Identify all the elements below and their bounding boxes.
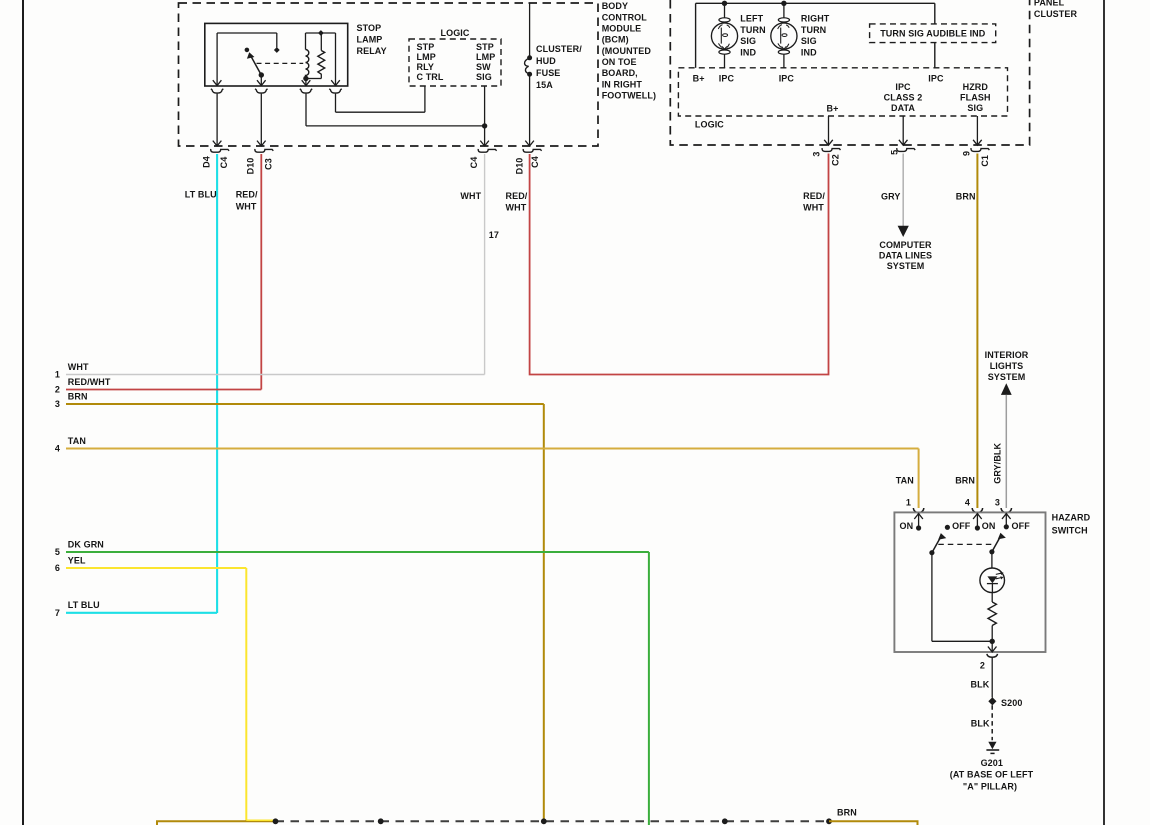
label GRY/BLK [993,442,1003,483]
label RED/WHT [236,190,258,212]
svg-text:LEFT: LEFT [740,14,763,24]
svg-text:4: 4 [965,498,970,508]
label LT BLU [185,190,217,200]
wire GRY from IPC pin 5 [902,154,904,227]
label OFF (switch 2) [1012,521,1031,531]
IPC B+ feed wire [696,3,935,68]
pin label C4 [530,156,540,168]
label ON (switch 1) [899,521,913,531]
pin label 3 [812,151,822,156]
svg-text:C1: C1 [980,155,990,167]
hazard pin4 entry [973,514,982,531]
svg-text:IPC: IPC [928,74,944,84]
left turn sig ind label [740,14,765,58]
svg-text:3: 3 [55,399,60,409]
hazard pin label 2 [980,661,985,671]
wire BLK S200 to G201 [991,705,993,740]
svg-text:TURN: TURN [801,25,826,35]
svg-text:WHT: WHT [236,201,257,211]
svg-text:C2: C2 [831,154,841,166]
BCM pin D10/C3 [255,141,273,153]
wire to turn sig audible ind [934,3,936,24]
label GRY [881,191,900,201]
svg-text:SYSTEM: SYSTEM [988,372,1026,382]
wire logic B+ to pin 3 [828,116,830,145]
hazard pin label 1 [906,498,911,508]
svg-text:SIG: SIG [967,103,983,113]
hazard pin label 4 [965,498,970,508]
stop lamp relay label [357,23,387,56]
svg-text:(AT BASE OF LEFT: (AT BASE OF LEFT [950,769,1034,779]
svg-text:IPC: IPC [719,74,735,84]
left turn signal indicator lamp [711,6,737,68]
logic input label B+ [693,74,705,84]
junction dot B [378,818,384,824]
arrow to interior lights system [1001,383,1012,395]
svg-text:RED/WHT: RED/WHT [68,377,111,387]
svg-text:RELAY: RELAY [357,46,387,56]
svg-text:TAN: TAN [68,436,86,446]
svg-text:3: 3 [995,498,1000,508]
hazard switch 1 arm [929,534,945,556]
wire relay pin4 to rly ctrl [336,86,425,112]
svg-text:COMPUTER: COMPUTER [879,240,932,250]
BCM pin C4 (stop lamp sw sig) [478,141,496,153]
svg-text:SW: SW [476,62,491,72]
junction dot E [826,818,832,824]
panel cluster label [1034,0,1078,19]
label TAN at hazard pin 1 [896,475,914,485]
hazard pin label 3 [995,498,1000,508]
wire RED/WHT from BCM D10/C3 [260,154,262,390]
hazard switch 2 arm [989,533,1005,554]
wire 6 YEL [55,555,246,573]
wire YEL overlap to junction [246,819,273,821]
svg-text:HAZARD: HAZARD [1052,513,1091,523]
pin label C3 [264,158,274,170]
svg-text:C3: C3 [264,158,274,170]
svg-text:LOGIC: LOGIC [441,28,470,38]
logic output label IPC CLASS 2 DATA [884,82,923,113]
svg-text:B+: B+ [693,74,705,84]
svg-text:1: 1 [906,498,911,508]
svg-text:BRN: BRN [837,808,857,818]
svg-text:BLK: BLK [971,680,990,690]
svg-text:TURN: TURN [740,25,765,35]
IPC logic dashed box [678,68,1007,116]
relay pin 4 [329,80,341,93]
wire logic class2 to pin 5 [902,116,904,145]
svg-text:BRN: BRN [955,475,975,485]
relay pin 1 [211,80,223,93]
svg-text:TAN: TAN [896,475,914,485]
IPC pin 5 [897,140,915,152]
logic input label IPC (right lamp) [779,74,795,84]
svg-text:RIGHT: RIGHT [801,14,830,24]
svg-text:C4: C4 [469,157,479,169]
svg-text:BODY: BODY [602,1,628,11]
hazard left branch wire [932,553,992,642]
hazard illumination resistor [988,602,996,626]
svg-text:STP: STP [417,42,435,52]
ground G201 [986,742,999,754]
hazard illumination LED [980,568,1005,593]
pin label D10 [515,158,525,175]
svg-text:TURN SIG AUDIBLE IND: TURN SIG AUDIBLE IND [880,29,986,39]
svg-text:RED/: RED/ [506,191,528,201]
svg-text:DATA LINES: DATA LINES [879,250,932,260]
wire 5 DK GRN vertical run [648,552,650,825]
pin label 9 [962,151,972,156]
right turn sig ind label [801,14,830,58]
wire 3 BRN vertical run [543,404,545,821]
hazard pin3 entry [1002,514,1011,530]
relay stationary contact [245,48,250,53]
relay fixed contact stub [274,33,280,53]
relay right vertical wire [335,33,337,86]
wire 6 YEL vertical run [245,568,247,821]
IPC pin 9/C1 [971,140,989,152]
label OFF (switch 1) [952,521,971,531]
svg-text:LOGIC: LOGIC [695,119,724,129]
svg-text:D10: D10 [246,158,256,175]
logic output label HZRD FLASH SIG [960,82,991,113]
label WHT [460,191,481,201]
svg-text:STOP: STOP [357,23,382,33]
svg-text:SWITCH: SWITCH [1052,525,1088,535]
svg-text:LIGHTS: LIGHTS [990,361,1024,371]
label BLK [971,680,990,690]
svg-text:15A: 15A [536,80,553,90]
pin label D4 [202,156,212,168]
svg-text:LMP: LMP [476,52,495,62]
svg-text:WHT: WHT [506,203,527,213]
svg-text:17: 17 [489,230,499,240]
interior lights system label [985,350,1029,382]
ground location label [950,769,1034,791]
junction dot D [722,818,728,824]
label RED/WHT (fuse output wire) [506,191,528,213]
turn sig audible ind box [870,24,996,43]
bottom dashed bus wire [276,820,830,822]
logic output label B+ [827,103,839,113]
svg-text:PANEL: PANEL [1034,0,1065,8]
svg-text:5: 5 [55,547,60,557]
hazard switch label [1052,513,1091,536]
svg-text:CLUSTER: CLUSTER [1034,9,1078,19]
svg-text:LT BLU: LT BLU [68,600,100,610]
svg-text:FUSE: FUSE [536,68,560,78]
computer data lines system label [879,240,932,271]
svg-text:2: 2 [55,385,60,395]
svg-text:GRY/BLK: GRY/BLK [993,442,1003,483]
pin label D10 [246,158,256,175]
svg-text:YEL: YEL [68,555,86,565]
svg-text:4: 4 [55,444,60,454]
wire LT BLU from BCM D4 [216,154,218,613]
svg-text:STP: STP [476,42,494,52]
svg-text:FLASH: FLASH [960,92,991,102]
svg-text:ON: ON [899,521,913,531]
svg-text:C4: C4 [530,156,540,168]
circuit number 17 [489,230,499,240]
svg-text:C TRL: C TRL [417,72,444,82]
wire 3 BRN [55,391,544,409]
svg-text:DATA: DATA [891,103,915,113]
svg-text:IN RIGHT: IN RIGHT [602,79,643,89]
svg-text:INTERIOR: INTERIOR [985,350,1029,360]
svg-text:D10: D10 [515,158,525,175]
svg-text:BLK: BLK [971,718,990,728]
svg-text:IPC: IPC [779,74,795,84]
BCM label text [602,1,656,100]
pin label 5 [889,150,899,155]
wire switch2 to lamp [991,552,993,568]
label BRN (bottom) [837,808,857,818]
wire 1 WHT [55,362,485,380]
svg-text:CLUSTER/: CLUSTER/ [536,44,582,54]
cluster/hud fuse F1 15A [525,4,533,147]
svg-text:IND: IND [740,47,756,57]
svg-text:7: 7 [55,608,60,618]
svg-text:(BCM): (BCM) [602,35,629,45]
wire BRN bottom left elbow [157,821,276,825]
svg-text:SIG: SIG [801,36,817,46]
wire WHT from BCM C4 [484,154,486,375]
splice S200 [988,697,1022,708]
svg-text:MODULE: MODULE [602,24,642,34]
svg-text:GRY: GRY [881,191,900,201]
svg-text:FOOTWELL): FOOTWELL) [602,90,656,100]
svg-text:CONTROL: CONTROL [602,12,648,22]
junction node left turn lamp [722,1,727,6]
svg-text:HZRD: HZRD [963,82,989,92]
pin label C4 [219,157,229,169]
wire lamp to resistor [991,593,993,602]
wire logic hzrd flash to pin 9 [976,116,978,145]
wire audible ind to logic [934,43,936,68]
junction dot C [541,818,547,824]
hazard switch box [894,512,1045,652]
hazard sw1 off contact [945,525,950,530]
svg-text:C4: C4 [219,157,229,169]
instrument panel cluster dashed box [670,0,1029,145]
svg-text:SIG: SIG [476,72,492,82]
BCM pin D4/C4 [211,141,229,153]
svg-text:HUD: HUD [536,56,556,66]
right turn signal indicator lamp [771,6,797,68]
BCM logic title [441,28,470,38]
wire 4 TAN vertical to hazard switch [918,449,920,509]
hazard switch pin 4 connector [972,508,982,513]
relay coil suppression resistor [306,51,325,79]
label BRN [956,191,976,201]
logic STP LMP SW SIG label [476,42,495,82]
wire BRN bottom right elbow [829,821,918,825]
wire stp lmp sw sig to BCM pin C4 [482,86,487,146]
svg-text:D4: D4 [202,156,212,168]
wire 2 RED/WHT [55,377,261,395]
BCM module dashed box [179,3,599,146]
svg-text:LAMP: LAMP [357,34,383,44]
logic input label IPC (left lamp) [719,74,735,84]
svg-text:ON TOE: ON TOE [602,57,637,67]
junction dot A [273,818,279,824]
svg-text:OFF: OFF [952,521,971,531]
svg-text:LMP: LMP [417,52,436,62]
relay switch arm [248,53,264,86]
svg-text:LT BLU: LT BLU [185,190,217,200]
pin label C1 [980,155,990,167]
svg-text:BRN: BRN [68,391,88,401]
BCM logic dashed box [409,39,501,86]
hazard switch pin 3 connector [1001,508,1011,513]
hazard switch pin 1 connector [913,508,923,513]
svg-text:(MOUNTED: (MOUNTED [602,46,652,56]
wire relay pin1 to BCM pin D4 [216,94,218,146]
relay actuation dashed link [257,62,304,64]
logic input label IPC (audible) [928,74,944,84]
svg-text:RED/: RED/ [236,190,258,200]
svg-text:G201: G201 [981,758,1003,768]
hazard pin 2 exit [987,641,998,657]
svg-text:WHT: WHT [460,191,481,201]
pin label C2 [831,154,841,166]
wire BRN from IPC pin 9 [976,154,978,509]
svg-text:5: 5 [889,150,899,155]
wire relay pin3 to stop lamp sw sig node [306,94,485,126]
svg-text:1: 1 [55,370,60,380]
svg-text:BOARD,: BOARD, [602,68,638,78]
BCM pin D10/C4 (fuse output) [523,141,541,153]
svg-text:ON: ON [982,521,996,531]
IPC pin 3/C2 [822,140,840,152]
svg-text:SIG: SIG [740,36,756,46]
svg-text:WHT: WHT [803,203,824,213]
label G201 [981,758,1003,768]
IPC logic title [695,119,724,129]
wire 5 DK GRN [55,539,649,557]
logic STP LMP RLY CTRL label [417,42,444,82]
label BLK (to ground) [971,718,990,728]
relay contact feed wire [217,33,277,86]
svg-text:6: 6 [55,563,60,573]
wire BLK hazard to S200 [991,658,993,698]
svg-text:9: 9 [962,151,972,156]
svg-text:SYSTEM: SYSTEM [887,261,925,271]
svg-text:WHT: WHT [68,362,89,372]
wire RED/WHT from BCM D10/C4 to IPC (U run) [530,154,829,375]
pin label C4 [469,157,479,169]
wire 4 TAN [55,436,919,454]
wire 7 LT BLU [55,600,217,618]
hazard switches dashed gang link [938,543,992,545]
svg-text:S200: S200 [1001,698,1022,708]
svg-text:IND: IND [801,47,817,57]
svg-text:2: 2 [980,661,985,671]
svg-text:IPC: IPC [895,82,911,92]
relay pin 2 [255,80,267,93]
fuse label [536,44,582,90]
wire relay pin2 to BCM pin D10 [260,94,262,146]
relay pin 3 [300,80,312,93]
svg-text:B+: B+ [827,103,839,113]
svg-text:"A" PILLAR): "A" PILLAR) [963,781,1017,791]
svg-text:DK GRN: DK GRN [68,539,104,549]
right page border line [1103,0,1105,825]
label BRN at hazard pin 4 [955,475,975,485]
relay coil bottom junction [303,76,308,86]
wire resistor to pin 2 junction [990,626,995,645]
relay coil [306,50,309,79]
svg-text:OFF: OFF [1012,521,1031,531]
svg-text:BRN: BRN [956,191,976,201]
svg-text:CLASS 2: CLASS 2 [884,92,923,102]
arrow to computer data lines system [898,226,909,237]
svg-text:3: 3 [812,151,822,156]
label ON (switch 2) [982,521,996,531]
label RED/WHT (IPC side) [803,191,825,213]
stop lamp relay box [205,23,348,86]
wire GRY/BLK hazard to interior lights [1005,395,1007,508]
junction node right turn lamp [781,1,786,6]
svg-text:RLY: RLY [417,62,434,72]
relay coil top wire [306,30,336,50]
left page border line [22,0,24,825]
hazard pin1 entry [914,514,923,531]
svg-text:RED/: RED/ [803,191,825,201]
